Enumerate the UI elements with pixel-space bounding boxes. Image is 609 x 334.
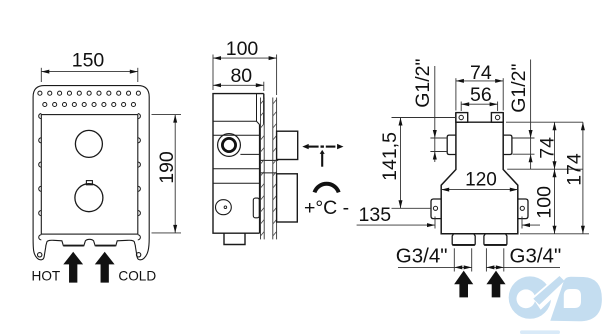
bottom stub right xyxy=(484,234,507,245)
dimension 135 xyxy=(357,217,540,229)
svg-text:120: 120 xyxy=(465,169,497,190)
dimension 141,5 xyxy=(392,118,456,209)
faint lower watermark edge xyxy=(520,330,560,334)
svg-text:135: 135 xyxy=(359,204,392,226)
mounting tab right xyxy=(518,199,528,219)
reference line middle xyxy=(507,168,583,170)
wall layer 2 xyxy=(273,98,277,240)
oval fixing boss xyxy=(216,200,232,215)
svg-text:COLD: COLD xyxy=(118,268,156,283)
clip bumps right edge xyxy=(138,114,141,240)
c annulus xyxy=(509,276,551,318)
svg-text:G1/2": G1/2" xyxy=(508,64,530,113)
reference line bottom xyxy=(520,233,589,235)
body outline xyxy=(213,94,264,234)
side pocket left xyxy=(447,135,456,154)
valve outer circle xyxy=(218,134,241,157)
G1/2 left leader line xyxy=(430,66,447,162)
boss screw dot xyxy=(224,206,227,209)
svg-text:100: 100 xyxy=(534,186,556,219)
through-wall line lower xyxy=(260,172,277,174)
dimension 100 (depth) xyxy=(213,55,277,96)
valve thick ring xyxy=(222,138,235,151)
G3/4 left dimension xyxy=(398,248,472,271)
svg-text:G3/4": G3/4" xyxy=(396,245,448,268)
top port right xyxy=(491,113,503,123)
foot screw hole left xyxy=(38,253,42,257)
perforation dots row 1 xyxy=(38,91,141,95)
adjust double arrow symbol xyxy=(302,144,343,167)
cold flow arrow xyxy=(95,252,115,283)
wall layer 1 xyxy=(261,98,265,240)
knob notch xyxy=(86,181,92,185)
clip bumps left edge xyxy=(39,114,42,240)
svg-text:74: 74 xyxy=(537,137,559,159)
bottom foot xyxy=(224,233,245,244)
dimension 80 xyxy=(213,82,264,91)
G3/4 right dimension xyxy=(486,248,560,271)
d body xyxy=(550,277,602,322)
cold inlet arrow (right view) xyxy=(486,271,505,298)
bottom stub left xyxy=(452,234,475,245)
svg-text:56: 56 xyxy=(470,84,492,106)
cartridge top line xyxy=(213,134,261,136)
svg-text:190: 190 xyxy=(156,151,178,184)
G1/2 right leader line xyxy=(513,60,535,170)
cartridge bottom line xyxy=(240,153,260,155)
crossing stroke xyxy=(533,276,564,305)
side slot detail xyxy=(253,198,259,218)
reference line top (right side) xyxy=(506,121,583,123)
body line B xyxy=(213,182,260,184)
dimension 174 xyxy=(581,122,585,234)
knob circle bottom xyxy=(75,184,103,212)
top port left xyxy=(456,113,468,123)
svg-text:HOT: HOT xyxy=(32,268,61,283)
svg-text:+°C -: +°C - xyxy=(304,197,349,219)
svg-text:150: 150 xyxy=(72,49,105,71)
dimension 150 xyxy=(41,68,138,82)
shoulder line xyxy=(213,121,260,124)
dimension 120 xyxy=(441,188,518,192)
svg-text:80: 80 xyxy=(230,65,252,87)
svg-text:G1/2": G1/2" xyxy=(412,59,434,108)
tab bottom bold edges xyxy=(64,245,84,247)
inner edge top block xyxy=(256,94,258,122)
dimension 56 xyxy=(461,102,497,112)
chained dimension 74/100 line xyxy=(553,122,557,234)
svg-text:174: 174 xyxy=(563,153,585,186)
plate outline with feet xyxy=(33,86,149,260)
svg-text:141,5: 141,5 xyxy=(379,132,401,181)
perforation dots row 2 xyxy=(43,102,136,106)
dimension 74 top xyxy=(456,78,503,110)
inner rough-box rect xyxy=(41,115,138,235)
mounting tab left xyxy=(431,199,441,219)
watermark logo cd xyxy=(509,272,602,334)
wall hatching xyxy=(261,100,277,237)
side pocket right xyxy=(503,135,512,154)
knob circle top xyxy=(75,130,102,157)
svg-text:G3/4": G3/4" xyxy=(510,245,562,268)
body top edge xyxy=(456,121,503,123)
protruding box lower (trim box) xyxy=(277,174,298,222)
white channel cut xyxy=(532,272,569,310)
through-wall line upper xyxy=(260,159,279,161)
svg-text:74: 74 xyxy=(470,62,492,84)
svg-text:100: 100 xyxy=(226,38,259,60)
temperature arc symbol xyxy=(315,184,339,193)
body line A xyxy=(213,168,260,170)
hot flow arrow xyxy=(63,252,83,283)
body outline xyxy=(441,113,518,234)
protruding box upper (handle hub) xyxy=(277,131,298,159)
hot inlet arrow (right view) xyxy=(454,271,473,298)
small up arrow under xyxy=(321,154,323,167)
foot screw hole right xyxy=(136,253,140,257)
dimension 190 xyxy=(152,115,182,233)
